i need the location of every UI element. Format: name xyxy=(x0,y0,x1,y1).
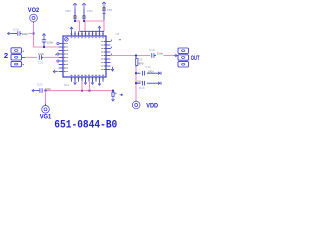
svg-text:C13: C13 xyxy=(145,65,151,69)
svg-text:2: 2 xyxy=(4,53,8,60)
svg-text:49R9: 49R9 xyxy=(137,62,144,65)
svg-text:R16: R16 xyxy=(139,86,145,90)
svg-text:C19: C19 xyxy=(13,27,19,31)
svg-text:VDD: VDD xyxy=(146,103,158,110)
svg-text:VG1: VG1 xyxy=(40,113,52,120)
svg-text:100n: 100n xyxy=(157,52,164,56)
svg-text:C21: C21 xyxy=(38,61,44,65)
svg-text:C18: C18 xyxy=(149,48,155,52)
svg-text:651-0844-B0: 651-0844-B0 xyxy=(54,120,117,132)
svg-text:VO2: VO2 xyxy=(28,7,40,14)
svg-text:FB3: FB3 xyxy=(65,9,71,13)
svg-text:C23: C23 xyxy=(37,82,43,86)
svg-text:R15: R15 xyxy=(137,57,143,61)
svg-text:U3: U3 xyxy=(116,32,120,36)
svg-text:100n: 100n xyxy=(47,41,54,45)
svg-text:100n: 100n xyxy=(137,79,143,83)
svg-text:OUT: OUT xyxy=(191,55,200,62)
svg-text:100n: 100n xyxy=(22,32,29,36)
svg-text:100n: 100n xyxy=(38,52,45,56)
svg-text:FB4: FB4 xyxy=(87,9,93,13)
svg-text:FB5: FB5 xyxy=(107,8,113,12)
svg-text:R14: R14 xyxy=(64,83,70,87)
